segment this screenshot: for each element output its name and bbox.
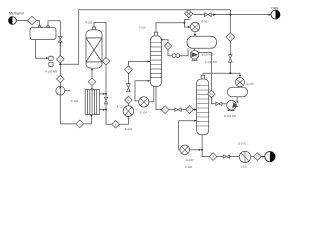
svg-text:R-100: R-100: [85, 20, 93, 24]
svg-text:E-107: E-107: [186, 158, 194, 162]
svg-text:Methanol: Methanol: [9, 11, 24, 15]
svg-text:T-100: T-100: [139, 25, 146, 29]
svg-text:P-100 A/B: P-100 A/B: [45, 70, 57, 74]
svg-text:E-100: E-100: [201, 20, 209, 24]
svg-text:P-104: P-104: [185, 165, 193, 169]
svg-text:V-101: V-101: [240, 165, 248, 169]
svg-text:E-105: E-105: [247, 82, 255, 86]
svg-text:P-101: P-101: [71, 99, 79, 103]
svg-text:DME: DME: [271, 7, 279, 11]
svg-text:V-100 A/B: V-100 A/B: [202, 53, 214, 57]
svg-text:E-102: E-102: [117, 105, 125, 109]
svg-text:P-103 A/B: P-103 A/B: [224, 114, 236, 118]
svg-text:P-102 A/B: P-102 A/B: [205, 60, 217, 64]
svg-text:E-106: E-106: [238, 142, 246, 146]
svg-text:E-103: E-103: [125, 127, 133, 131]
svg-text:E-104: E-104: [140, 110, 148, 114]
